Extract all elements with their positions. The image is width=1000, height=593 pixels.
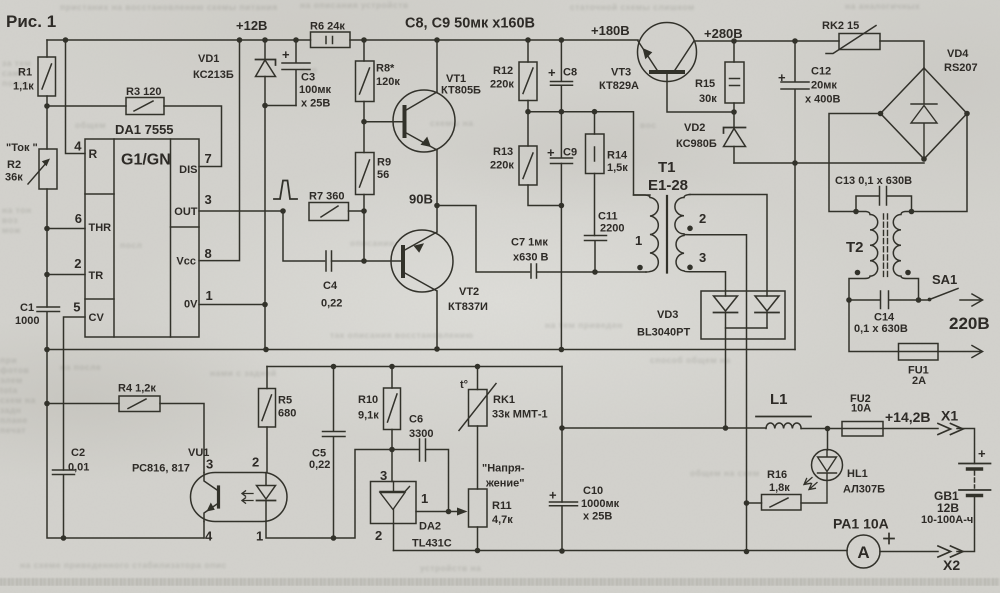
zener diode VD2 KS980B: [733, 112, 735, 128]
wire ground bus up to VD2/C12 row: [794, 163, 796, 350]
svg-text:680: 680: [278, 408, 296, 420]
svg-text:R7 360: R7 360: [309, 191, 344, 203]
wire TR pin 2: [47, 274, 85, 276]
wire C9 bottom down to ground bus: [560, 164, 562, 350]
node R12 bottom: [525, 109, 531, 115]
svg-text:4: 4: [205, 529, 213, 544]
capacitor C11: [585, 236, 607, 273]
wire top rail right segment (+280V): [694, 40, 839, 42]
svg-text:+: +: [778, 70, 786, 85]
node R16 on return line: [744, 500, 750, 506]
resistor R1: [46, 40, 48, 106]
fuse FU2: [842, 422, 883, 437]
zener diode VD1 KS213B: [264, 40, 266, 60]
svg-text:R5: R5: [278, 395, 292, 407]
wire T1 center tap down to return bus: [684, 235, 747, 552]
svg-text:R11: R11: [492, 500, 512, 512]
svg-text:C8, C9 50мк x160В: C8, C9 50мк x160В: [405, 16, 535, 32]
svg-text:220В: 220В: [949, 314, 990, 333]
resistor R7: [309, 203, 349, 221]
svg-text:x 25В: x 25В: [301, 98, 330, 110]
optocoupler VU1 light arrows: [242, 491, 253, 503]
wire VD1 anode down to ground bus: [264, 106, 266, 350]
svg-text:R14: R14: [607, 150, 628, 162]
node C14 left junction: [846, 297, 852, 303]
node center tap on return bus: [744, 549, 750, 555]
svg-text:+12В: +12В: [236, 18, 267, 33]
node C8 bottom: [559, 109, 565, 115]
svg-text:C2: C2: [71, 447, 85, 459]
svg-text:220к: 220к: [490, 79, 514, 91]
svg-text:R12: R12: [493, 65, 513, 77]
node R15 bottom junction: [731, 109, 737, 115]
svg-text:DA2: DA2: [419, 521, 441, 533]
transistor VT2 KT837I (PNP): [391, 230, 453, 292]
resistor R4: [47, 403, 119, 405]
LED HL1 emission arrows: [804, 478, 817, 490]
svg-text:TR: TR: [89, 270, 104, 282]
node THR junction: [44, 226, 50, 232]
svg-text:R10: R10: [358, 394, 378, 406]
svg-text:C4: C4: [323, 280, 338, 292]
svg-text:C9: C9: [563, 147, 577, 159]
wire node row C8/R12/R14: [528, 112, 650, 195]
svg-text:2: 2: [375, 528, 382, 543]
svg-text:E1-28: E1-28: [648, 177, 688, 194]
svg-text:OUT: OUT: [174, 206, 198, 218]
svg-text:1: 1: [635, 233, 642, 248]
svg-text:DA1 7555: DA1 7555: [115, 122, 174, 137]
svg-text:3: 3: [205, 192, 212, 207]
wire battery to X2: [957, 497, 975, 552]
svg-text:C5: C5: [312, 448, 326, 460]
svg-text:"Напря-: "Напря-: [482, 463, 525, 475]
svg-text:1000: 1000: [15, 315, 39, 327]
wire T1 winding2 top to VD3 right diode: [690, 195, 767, 297]
svg-text:DIS: DIS: [179, 164, 197, 176]
svg-text:+14,2В: +14,2В: [885, 409, 931, 425]
potentiometer R11: [477, 426, 479, 551]
svg-text:+: +: [548, 65, 556, 80]
svg-text:C13 0,1 x 630В: C13 0,1 x 630В: [835, 175, 912, 187]
svg-text:2A: 2A: [912, 375, 926, 387]
wire DA2 pin2 to bottom return bus: [393, 524, 395, 551]
wire R1 bottom to R3: [47, 105, 126, 107]
wire C4 to VT2 base: [332, 260, 402, 262]
wire R pin 4: [66, 40, 86, 154]
svg-text:C12: C12: [811, 66, 831, 78]
wire DA2 pin1 ref to R11 wiper arrow: [416, 511, 459, 513]
svg-text:10-100А-ч: 10-100А-ч: [921, 514, 973, 526]
wire C7 row to T1 winding1 bottom: [595, 271, 646, 273]
wire THR pin 6: [47, 228, 85, 230]
transistor VT1 KT805B: [393, 90, 455, 152]
node rail C8 drop: [559, 37, 565, 43]
transformer T1 winding 1: [634, 195, 659, 272]
wire bottom return bus: [394, 550, 848, 552]
thermistor RK2: [839, 34, 880, 50]
inductor L1: [766, 423, 801, 428]
svg-text:7: 7: [205, 151, 212, 166]
svg-text:1: 1: [421, 491, 428, 506]
diode assembly VD3 BL3040PT box: [701, 291, 785, 339]
svg-text:9,1к: 9,1к: [358, 410, 379, 422]
svg-text:10A: 10A: [851, 403, 871, 415]
capacitor C4: [326, 251, 332, 271]
wire CV pin 5 to C2: [64, 317, 86, 470]
svg-text:1,8к: 1,8к: [769, 482, 790, 494]
svg-text:L1: L1: [770, 391, 788, 408]
svg-text:X2: X2: [943, 557, 960, 573]
svg-text:5: 5: [73, 300, 80, 315]
node R13-C9 junction: [559, 203, 565, 209]
svg-text:+180В: +180В: [591, 23, 630, 38]
capacitor C1: [37, 307, 60, 350]
resistor R16: [762, 495, 802, 511]
node VD3 output on +14V wire: [723, 425, 729, 431]
svg-text:R4 1,2к: R4 1,2к: [118, 383, 156, 395]
svg-text:3300: 3300: [409, 428, 433, 440]
node T2 right top junction: [909, 209, 915, 215]
node C1 on ground bus: [44, 347, 50, 353]
svg-text:T1: T1: [658, 159, 676, 176]
transistor VT3 KT829A: [638, 23, 697, 82]
wire OUT pin 3: [199, 210, 283, 212]
svg-text:R3 120: R3 120: [126, 86, 161, 98]
bleedthrough ghost text: [60, 2, 278, 12]
transformer T2 left winding: [849, 212, 878, 301]
svg-text:33к ММТ-1: 33к ММТ-1: [492, 409, 548, 421]
svg-text:RS207: RS207: [944, 62, 978, 74]
wire VD1 junction to C3: [265, 105, 296, 107]
capacitor C12: [781, 41, 809, 163]
svg-text:20мк: 20мк: [811, 80, 837, 92]
svg-text:+280В: +280В: [704, 26, 743, 41]
svg-text:C1: C1: [20, 302, 34, 314]
transformer T1 winding 3: [676, 236, 690, 272]
wire R16 to center tap line: [747, 502, 762, 504]
node R14 top: [592, 109, 598, 115]
node R1 bottom junction: [44, 103, 50, 109]
transformer T1 core: [666, 196, 668, 273]
node C5 bottom on pin1 wire: [331, 535, 337, 541]
wire +14V output wire: [562, 427, 766, 429]
svg-text:3: 3: [206, 457, 213, 472]
resistor R10: [391, 367, 393, 450]
node R10 top junction: [389, 364, 395, 370]
svg-text:R13: R13: [493, 146, 513, 158]
svg-text:VD4: VD4: [947, 48, 969, 60]
wire PA1 to X2: [880, 551, 938, 553]
node RK1 top junction: [475, 364, 481, 370]
svg-text:x 25В: x 25В: [583, 511, 612, 523]
wire L1 to FU2: [801, 428, 938, 430]
node C2 to ground wire: [61, 535, 67, 541]
svg-text:THR: THR: [89, 222, 112, 234]
svg-text:CV: CV: [89, 312, 105, 324]
node +14V wire start: [559, 425, 565, 431]
svg-text:КС980Б: КС980Б: [676, 138, 717, 150]
svg-text:PA1 10A: PA1 10A: [833, 516, 889, 532]
wire VD3 common cathode to output bus: [726, 328, 768, 428]
node T2 left phase dot: [855, 270, 861, 276]
node C12 bottom junction: [792, 160, 798, 166]
node rail R8 drop: [361, 37, 367, 43]
svg-text:1000мк: 1000мк: [581, 498, 620, 510]
svg-text:жение": жение": [485, 478, 525, 490]
svg-text:R6 24к: R6 24к: [310, 21, 345, 33]
svg-text:R16: R16: [767, 469, 787, 481]
capacitor C2: [53, 470, 75, 538]
node VT2 collector on ground bus: [434, 346, 440, 352]
node R11 bottom on return bus: [475, 548, 481, 554]
capacitor C7: [531, 264, 595, 278]
wire X1 to battery: [957, 429, 975, 464]
svg-text:+: +: [282, 47, 290, 62]
svg-text:1,5к: 1,5к: [607, 162, 628, 174]
wire VU1 pin 1 to C5 bottom and DA2 node: [266, 450, 392, 539]
resistor R3: [126, 98, 164, 115]
svg-text:R1: R1: [18, 67, 32, 79]
wire 0V pin 1: [199, 304, 265, 306]
node T1 winding3 phase dot: [687, 265, 693, 271]
potentiometer R2: [46, 106, 48, 229]
svg-text:2: 2: [252, 455, 259, 470]
resistor R6: [311, 32, 351, 48]
wire OUT node down to C4 row: [283, 211, 325, 261]
node R10-DA2-C6 junction: [389, 447, 395, 453]
svg-text:R8*: R8*: [376, 63, 395, 75]
node HL1 top junction: [825, 426, 831, 432]
svg-text:120к: 120к: [376, 76, 400, 88]
svg-text:RK2 15: RK2 15: [822, 20, 859, 32]
node T2 left top junction: [853, 209, 859, 215]
fuse FU1: [899, 344, 939, 361]
node rail VD1 drop: [262, 37, 268, 43]
svg-text:220к: 220к: [490, 160, 514, 172]
battery GB1 cell2: [959, 489, 991, 491]
terminal X2 arrow: [938, 546, 963, 557]
wire R3 to DIS pin 7: [164, 106, 222, 167]
diode VD3 left half: [714, 296, 738, 311]
node rail Vcc drop: [237, 37, 243, 43]
svg-text:0,01: 0,01: [68, 462, 89, 474]
svg-text:"Ток ": "Ток ": [6, 142, 38, 154]
svg-text:90В: 90В: [409, 192, 433, 207]
svg-text:C8: C8: [563, 67, 577, 79]
node C11 bottom junction: [592, 269, 598, 275]
svg-text:X1: X1: [941, 408, 958, 424]
svg-text:3: 3: [380, 468, 387, 483]
LED HL1 AL307B: [812, 450, 843, 481]
svg-text:0V: 0V: [184, 299, 198, 311]
svg-text:VD2: VD2: [684, 122, 705, 134]
svg-text:2: 2: [74, 256, 81, 271]
node rail C12 drop: [792, 38, 798, 44]
resistor R15: [733, 41, 735, 112]
svg-text:TL431C: TL431C: [412, 538, 452, 550]
node VD1-C3 junction: [262, 103, 268, 109]
wire R2 bottom to C1: [46, 229, 48, 308]
svg-text:4: 4: [74, 139, 82, 154]
node T1 winding1 phase dot: [637, 265, 643, 271]
svg-text:КС213Б: КС213Б: [193, 69, 234, 81]
svg-text:T2: T2: [846, 239, 864, 256]
svg-text:100мк: 100мк: [299, 84, 331, 96]
svg-text:x630 В: x630 В: [513, 252, 549, 264]
wire R7 to R9 bottom node: [349, 210, 365, 212]
svg-text:x 400В: x 400В: [805, 94, 841, 106]
node C6 on DA2 ref wire: [446, 509, 452, 515]
battery GB1 cell1: [959, 463, 991, 465]
resistor R5: [266, 367, 268, 473]
svg-text:2: 2: [699, 211, 706, 226]
node rail pin4 drop: [63, 37, 69, 43]
capacitor C10: [550, 502, 578, 551]
svg-text:0,22: 0,22: [321, 298, 342, 310]
node C14 right junction: [916, 297, 922, 303]
svg-text:АЛ307Б: АЛ307Б: [843, 484, 885, 496]
wire main ground bus: [47, 349, 795, 351]
svg-text:56: 56: [377, 169, 389, 181]
wire C14 left down to FU1: [849, 300, 899, 352]
node rail C3 drop: [293, 37, 299, 43]
node bridge left corner: [878, 111, 884, 117]
ammeter PA1: [847, 535, 880, 568]
wire top rail middle segment after R6: [350, 39, 638, 41]
capacitor C9: [551, 112, 573, 164]
svg-text:C10: C10: [583, 485, 603, 497]
svg-text:G1/GN: G1/GN: [121, 152, 171, 169]
IC op-amp/timer DA1 7555 body: [85, 139, 199, 337]
resistor R8: [363, 40, 365, 122]
resistor R12: [527, 40, 529, 112]
capacitor C6: [392, 439, 449, 512]
svg-text:+: +: [549, 488, 557, 503]
transformer T2 core: [883, 214, 885, 278]
node rail VT1 collector drop: [434, 37, 440, 43]
svg-text:30к: 30к: [699, 93, 717, 105]
node R4 junction: [44, 401, 50, 407]
svg-text:36к: 36к: [5, 172, 23, 184]
svg-text:C11: C11: [598, 211, 618, 223]
wire feedback row corner down through C10: [561, 367, 563, 503]
svg-text:КТ837И: КТ837И: [448, 301, 488, 313]
wire 90V node to C7: [437, 206, 530, 273]
wire left column below bus: [47, 350, 204, 539]
svg-text:2200: 2200: [600, 223, 624, 235]
svg-text:C3: C3: [301, 72, 315, 84]
pulse waveform symbol: [274, 181, 297, 200]
svg-text:C7 1мк: C7 1мк: [511, 237, 548, 249]
wire bridge left corner to T2 top left: [829, 114, 881, 212]
svg-text:3: 3: [699, 250, 706, 265]
node C9 line on ground bus: [559, 347, 565, 353]
terminal X1 arrow: [938, 424, 963, 435]
node T1 winding2 phase dot: [687, 226, 693, 232]
wire VD2 anode row to bridge bottom: [734, 162, 924, 164]
svg-text:1,1к: 1,1к: [13, 81, 34, 93]
resistor R14: [586, 134, 605, 174]
svg-text:HL1: HL1: [847, 468, 868, 480]
svg-text:0,22: 0,22: [309, 459, 330, 471]
optocoupler VU1 phototransistor: [217, 487, 220, 507]
wire VT3 base down and right to R15 bottom: [667, 72, 734, 112]
wire 220V lower output arrow: [938, 346, 983, 358]
svg-text:Рис. 1: Рис. 1: [6, 12, 56, 31]
svg-text:РС816, 817: РС816, 817: [132, 463, 190, 475]
transformer T2 right winding: [893, 212, 918, 301]
svg-text:КТ805Б: КТ805Б: [441, 85, 481, 97]
wire +12V top rail left segment: [47, 39, 311, 41]
svg-text:12В: 12В: [937, 501, 959, 515]
svg-text:1: 1: [206, 288, 213, 303]
wire feedback row: [267, 366, 562, 368]
svg-text:R: R: [89, 147, 98, 161]
svg-text:8: 8: [205, 246, 212, 261]
svg-text:+: +: [978, 446, 986, 461]
node VT1 base junction: [361, 119, 367, 125]
wire Vcc pin 8 to rail: [199, 40, 240, 261]
svg-text:C14: C14: [874, 312, 895, 324]
bridge rectifier VD4 RS207: [881, 68, 968, 159]
diode VD3 right half: [755, 296, 779, 311]
capacitor C5: [323, 367, 346, 539]
wire 220V upper output arrow: [960, 294, 983, 306]
svg-text:4,7к: 4,7к: [492, 514, 513, 526]
capacitor C3: [282, 40, 310, 106]
svg-text:1: 1: [256, 529, 263, 544]
wire R4 to VU1 pin 3: [160, 404, 204, 473]
node C5 top junction: [331, 364, 337, 370]
capacitor C13: [856, 187, 912, 212]
svg-text:VD3: VD3: [657, 309, 678, 321]
transformer T1 winding 2: [675, 195, 690, 234]
svg-text:t°: t°: [460, 379, 468, 391]
optocoupler VU1 PC816 body: [191, 473, 288, 522]
svg-text:R2: R2: [7, 159, 21, 171]
svg-text:R9: R9: [377, 157, 391, 169]
resistor R9: [363, 122, 365, 261]
node OUT junction: [280, 208, 286, 214]
svg-text:КТ829А: КТ829А: [599, 80, 639, 92]
capacitor C14: [849, 291, 919, 309]
node 0V junction: [262, 302, 268, 308]
switch SA1: [919, 289, 959, 301]
node bridge right corner: [964, 111, 970, 117]
wire bridge right corner to T2 top right: [912, 114, 968, 212]
wire VU1 pin 4 to ground wire: [203, 522, 205, 539]
node rail R12 drop: [525, 37, 531, 43]
svg-text:SA1: SA1: [932, 272, 957, 287]
svg-text:А: А: [857, 543, 869, 562]
battery GB1 dashed link: [974, 471, 976, 488]
svg-text:VT1: VT1: [446, 73, 466, 85]
svg-text:VT2: VT2: [459, 286, 479, 298]
node C4-R9 junction: [361, 258, 367, 264]
svg-text:BL3040PT: BL3040PT: [637, 327, 690, 339]
node C10 bottom on return bus: [559, 548, 565, 554]
node rail R15 drop: [731, 38, 737, 44]
svg-text:VT3: VT3: [611, 67, 631, 79]
node bridge bottom corner: [921, 156, 927, 162]
thermistor RK1: [477, 367, 479, 390]
svg-text:Vcc: Vcc: [176, 256, 196, 268]
capacitor C8: [551, 40, 573, 112]
svg-text:0,1 x 630В: 0,1 x 630В: [854, 323, 908, 335]
svg-text:RK1: RK1: [493, 394, 515, 406]
svg-text:C6: C6: [409, 414, 423, 426]
